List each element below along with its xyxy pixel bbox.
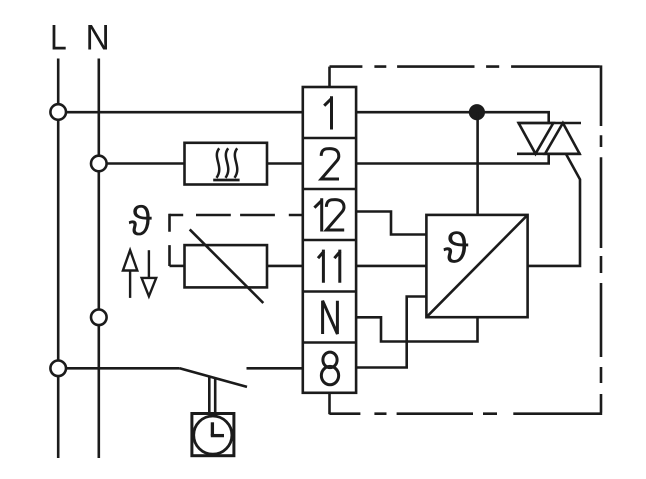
wire terminal 8 to controller: [356, 297, 426, 368]
wire terminal 2 to triac: [356, 154, 549, 164]
wire block bottom stub: [328, 393, 331, 414]
terminal 11 label: [318, 250, 340, 283]
wire N to heater: [99, 162, 185, 165]
timer clock P1: [192, 414, 234, 456]
wire terminal 1 to triac: [356, 112, 549, 123]
heater E1: [185, 143, 268, 185]
wire terminal 12 to controller: [356, 212, 426, 235]
triac V1: [517, 123, 581, 154]
wire triac gate to controller: [528, 154, 580, 266]
node L: [53, 25, 66, 49]
controller U1: [426, 215, 527, 317]
wire switch to terminal 8: [247, 367, 303, 370]
wire N line: [98, 59, 101, 459]
wire L to switch: [58, 367, 179, 370]
wire terminal 11 to controller: [356, 265, 426, 268]
wire L line: [57, 59, 60, 459]
terminal 2 label: [321, 149, 339, 179]
wire junction to controller top: [476, 112, 479, 215]
arrow up: [123, 250, 137, 298]
sensor theta label: [129, 205, 152, 235]
controller theta label: [444, 231, 469, 263]
node circle L upper: [50, 104, 66, 120]
wire thermistor to terminal 11: [267, 265, 303, 268]
wire heater to terminal 2: [267, 162, 303, 165]
wire block top stub: [328, 67, 331, 87]
enclosure dash-dot border: [329, 65, 602, 413]
terminal N label: [323, 301, 338, 334]
terminal 1 label: [324, 96, 332, 129]
wire dashed box to thermistor: [170, 265, 185, 268]
arrow down: [142, 250, 157, 296]
node circle N lower: [91, 310, 107, 326]
thermistor R1: [185, 229, 268, 303]
wire terminal N to controller bottom: [356, 317, 477, 341]
node N: [88, 25, 107, 49]
wire L to terminal 1: [58, 111, 303, 114]
junction dot: [469, 104, 485, 120]
switch S1 blade: [180, 368, 247, 387]
terminal block: [303, 87, 356, 393]
terminal 12 label: [314, 198, 344, 231]
timer linkage: [209, 376, 215, 414]
node circle L lower: [50, 361, 66, 377]
terminal 8 label: [321, 352, 338, 385]
node circle N upper: [91, 156, 107, 172]
dashed sensor outline: [170, 214, 303, 266]
